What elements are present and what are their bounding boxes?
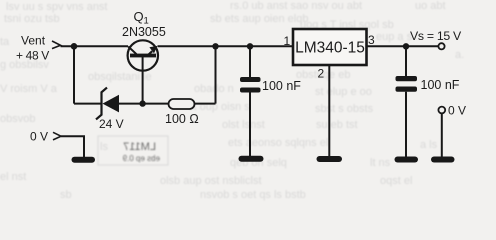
- svg-text:eup a s: eup a s: [376, 31, 413, 43]
- wire left vertical down to zener: [73, 46, 75, 103]
- svg-text:lsv uu s spv vns anst: lsv uu s spv vns anst: [6, 1, 108, 13]
- node 0V input terminal: [53, 132, 61, 140]
- capacitor C1 100nF: [240, 46, 261, 156]
- svg-text:uo abt: uo abt: [415, 0, 446, 12]
- svg-text:100 Ω: 100 Ω: [165, 112, 199, 126]
- node junction input: [71, 43, 78, 50]
- bleed-through ghost text (decorative): [0, 0, 464, 201]
- svg-text:sbst s obsts: sbst s obsts: [315, 103, 374, 115]
- svg-text:lt ns: lt ns: [370, 157, 391, 169]
- wire emitter rail to regulator input: [158, 45, 294, 47]
- diode zener D1 24V: [96, 88, 119, 120]
- node junction C2: [403, 43, 409, 49]
- svg-text:0 V: 0 V: [448, 104, 466, 118]
- wire 0V terminal to ground: [441, 114, 443, 158]
- svg-text:Vent: Vent: [21, 34, 46, 48]
- wire resistor to vertical riser: [195, 103, 216, 105]
- svg-text:0 V: 0 V: [30, 130, 48, 144]
- svg-text:a.: a.: [455, 49, 464, 61]
- node base junction: [139, 100, 145, 106]
- svg-text:ta: ta: [0, 36, 10, 48]
- schematic ink: [16, 9, 466, 163]
- node Vs output terminal: [438, 43, 444, 49]
- svg-text:2N3055: 2N3055: [122, 25, 166, 39]
- svg-text:obsvob: obsvob: [0, 113, 35, 125]
- svg-text:sb: sb: [60, 189, 72, 201]
- ground bar pin2: [317, 156, 343, 162]
- wire input rail to transistor collector: [61, 45, 129, 47]
- svg-text:su eb tst: su eb tst: [316, 119, 358, 131]
- node junction C1: [247, 43, 253, 49]
- wire zener anode to base node: [118, 103, 169, 105]
- svg-text:olst lsnst: olst lsnst: [222, 119, 265, 131]
- svg-text:el nst: el nst: [0, 171, 26, 183]
- node Vent input terminal: [52, 41, 61, 49]
- svg-text:100 nF: 100 nF: [421, 78, 460, 92]
- op-amp U1 LM340-15 regulator: [293, 29, 367, 65]
- svg-text:LM117: LM117: [123, 141, 156, 153]
- svg-text:st elup e oo: st elup e oo: [315, 86, 372, 98]
- svg-text:2: 2: [318, 67, 325, 81]
- wire pin 2 to ground: [328, 65, 330, 156]
- svg-text:tsni ozu tsb: tsni ozu tsb: [4, 13, 60, 25]
- svg-text:olsb aup ost nsbliclst: olsb aup ost nsbliclst: [160, 175, 262, 187]
- svg-text:+ 48 V: + 48 V: [16, 49, 49, 63]
- svg-text:sb ets aup oien elqb: sb ets aup oien elqb: [210, 13, 308, 25]
- svg-text:a ls: a ls: [420, 139, 438, 151]
- svg-text:ebs ep 0.9: ebs ep 0.9: [122, 154, 160, 163]
- wire 0V input to ground: [61, 136, 84, 157]
- svg-text:oqst el: oqst el: [380, 175, 412, 187]
- svg-text:1: 1: [284, 34, 291, 48]
- svg-text:ls: ls: [100, 141, 108, 153]
- transistor Q1 2N3055: [128, 40, 158, 70]
- svg-text:obado n: obado n: [194, 83, 234, 95]
- capacitor C2 100nF: [396, 46, 418, 157]
- ground bar 0V left: [72, 157, 96, 163]
- svg-text:ets aeonso sqlqns el: ets aeonso sqlqns el: [228, 137, 328, 149]
- resistor R1 100 ohm: [169, 99, 195, 109]
- wire bottom to zener cathode: [74, 103, 102, 105]
- node 0V output terminal: [438, 107, 445, 114]
- ground bar C2: [395, 157, 419, 163]
- svg-text:rs.0 ub anst sao nsv ou abt: rs.0 ub anst sao nsv ou abt: [230, 0, 362, 12]
- svg-text:LM340-15: LM340-15: [295, 40, 365, 57]
- wire riser up to emitter rail: [215, 46, 217, 103]
- wire base lead up to Q1: [142, 57, 144, 104]
- wire regulator output rail: [367, 45, 439, 47]
- svg-text:V roism V a: V roism V a: [0, 83, 58, 95]
- node junction resistor top: [212, 43, 218, 49]
- svg-text:Q: Q: [134, 9, 144, 24]
- svg-text:3: 3: [368, 33, 375, 47]
- svg-text:24 V: 24 V: [99, 117, 124, 131]
- ground bar 0V right: [431, 157, 455, 163]
- ground bar C1: [239, 156, 264, 162]
- svg-text:Vs = 15 V: Vs = 15 V: [410, 29, 462, 43]
- svg-text:100 nF: 100 nF: [262, 79, 301, 93]
- svg-text:nsvob s oet qs ls bstb: nsvob s oet qs ls bstb: [200, 189, 306, 201]
